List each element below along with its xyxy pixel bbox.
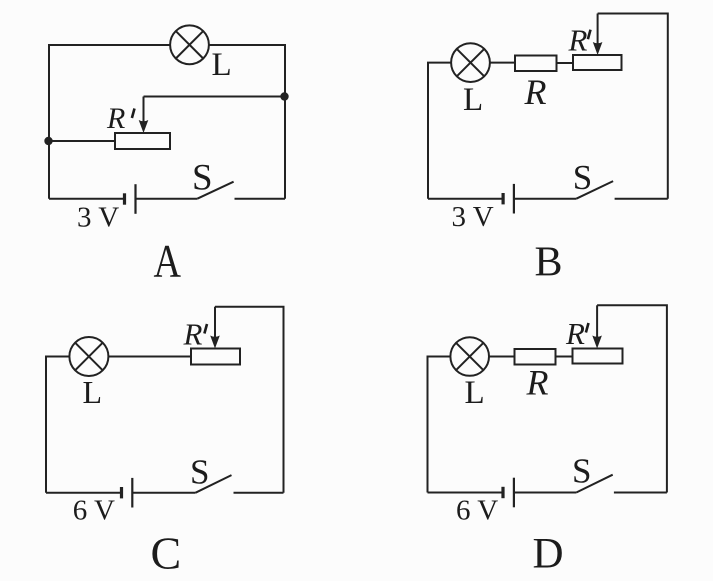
svg-text:3 V: 3 V bbox=[452, 201, 494, 233]
svg-text:R: R bbox=[565, 316, 585, 351]
svg-text:L: L bbox=[212, 47, 232, 83]
svg-text:R: R bbox=[568, 23, 588, 58]
svg-text:R: R bbox=[526, 362, 549, 402]
svg-text:S: S bbox=[192, 158, 213, 199]
svg-text:R: R bbox=[524, 72, 547, 112]
svg-text:C: C bbox=[151, 528, 182, 579]
svg-text:R: R bbox=[106, 102, 125, 135]
svg-text:6 V: 6 V bbox=[456, 495, 498, 527]
svg-text:L: L bbox=[465, 375, 485, 411]
svg-text:6 V: 6 V bbox=[73, 495, 115, 527]
svg-text:R: R bbox=[183, 317, 203, 352]
svg-text:S: S bbox=[190, 453, 209, 492]
svg-text:L: L bbox=[83, 374, 103, 410]
svg-text:B: B bbox=[535, 239, 563, 285]
svg-text:D: D bbox=[533, 531, 564, 578]
svg-text:S: S bbox=[573, 158, 592, 197]
svg-text:A: A bbox=[154, 236, 182, 288]
svg-text:3 V: 3 V bbox=[77, 202, 119, 234]
svg-text:L: L bbox=[463, 82, 483, 118]
svg-text:S: S bbox=[572, 452, 591, 491]
